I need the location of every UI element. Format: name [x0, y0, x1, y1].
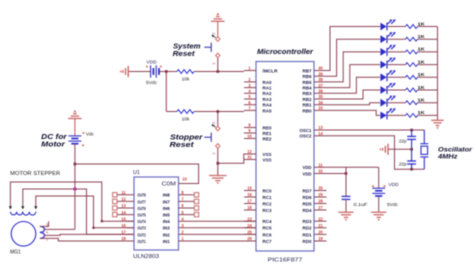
arrowhead winding terminal 1: [9, 206, 12, 209]
wire winding row 2 net: [23, 189, 134, 234]
svg-text:RA2: RA2: [263, 91, 272, 96]
plus mark V3 right: [383, 185, 385, 187]
wire IN2 to PIC: [179, 233, 257, 235]
wire LED D7 cathode to resistor: [388, 102, 406, 104]
svg-text:RE0: RE0: [263, 125, 272, 130]
junction node VDD rail / pull-up column: [165, 70, 168, 73]
resistor R7 1K: [406, 75, 418, 79]
svg-text:5Vdc: 5Vdc: [387, 202, 399, 208]
wire LED D2 cathode to resistor: [388, 38, 406, 40]
svg-text:38: 38: [318, 77, 323, 82]
svg-text:39: 39: [318, 71, 323, 76]
inductor L2 stepper winding B (2 bumps): [23, 212, 36, 215]
svg-text:RC6: RC6: [263, 232, 272, 237]
svg-text:0.1uF: 0.1uF: [354, 202, 368, 208]
svg-text:IN5: IN5: [163, 213, 170, 219]
power symbol P2 above motor supply battery: [68, 110, 82, 119]
battery V2 Vdc (DC for motor): [69, 136, 82, 144]
svg-text:1K: 1K: [418, 110, 426, 115]
wire LED D8 cathode to resistor: [388, 114, 406, 116]
wire LED common cathode bus: [437, 27, 439, 121]
battery V1 VDD 5Vdc (system): [151, 65, 159, 77]
svg-text:PIC16F877: PIC16F877: [268, 257, 303, 263]
wire LED D6 cathode to resistor: [388, 89, 406, 91]
svg-text:Reset: Reset: [170, 140, 195, 149]
resistor R1 10k (system reset pull-up): [177, 70, 194, 74]
svg-text:36: 36: [318, 89, 323, 94]
wire OSC2 net: [327, 136, 425, 169]
resistor R2 10k (stopper reset pull-up): [177, 110, 194, 114]
wire LED D3 cathode to resistor: [388, 51, 406, 53]
svg-text:MG1: MG1: [10, 250, 21, 256]
svg-text:OUT5: OUT5: [137, 213, 146, 219]
svg-text:15: 15: [247, 186, 252, 191]
svg-text:Oscillator: Oscillator: [438, 146, 472, 153]
unconnected square terminal IN5: [194, 212, 198, 216]
svg-text:OUT2: OUT2: [137, 232, 146, 238]
svg-text:ULN2803: ULN2803: [133, 254, 159, 260]
svg-text:RD5: RD5: [303, 201, 312, 206]
crystal Y1 4MHz: [420, 130, 428, 169]
svg-text:11: 11: [121, 190, 126, 195]
svg-text:17: 17: [121, 230, 126, 235]
LED D8: [380, 108, 395, 119]
svg-text:OUT7: OUT7: [137, 199, 146, 205]
arrowhead winding terminal 2: [21, 206, 24, 209]
svg-text:26: 26: [247, 236, 252, 241]
svg-text:34: 34: [318, 100, 323, 105]
svg-text:14: 14: [121, 210, 126, 215]
svg-text:23: 23: [247, 216, 252, 221]
svg-text:VSS: VSS: [263, 157, 272, 162]
wire winding row 3 net: [36, 196, 134, 228]
junction node OUT3 row: [92, 227, 94, 229]
svg-text:RB7: RB7: [303, 68, 312, 73]
wire IN1 to PIC: [179, 240, 257, 242]
resistor R6 1K: [406, 63, 418, 67]
svg-text:IN2: IN2: [163, 232, 170, 238]
resistor R10 1K: [406, 114, 418, 118]
svg-text:RA0: RA0: [263, 80, 272, 85]
svg-text:1K: 1K: [418, 72, 426, 77]
wire RB2 to LED row 6: [327, 90, 381, 99]
svg-text:19: 19: [318, 236, 323, 241]
svg-text:RC7: RC7: [263, 239, 272, 244]
svg-text:RD6: RD6: [303, 195, 312, 200]
svg-text:15: 15: [121, 216, 126, 221]
unconnected square terminal OUT7: [113, 199, 117, 203]
svg-text:RD0: RD0: [303, 239, 312, 244]
svg-text:RE2: RE2: [263, 136, 272, 141]
svg-text:RD4: RD4: [303, 208, 312, 213]
svg-text:17: 17: [247, 199, 252, 204]
svg-text:OUT3: OUT3: [137, 226, 146, 232]
svg-text:5Vdc: 5Vdc: [146, 80, 158, 86]
inductor L1 stepper winding A (2 bumps): [10, 212, 22, 215]
svg-text:VDD: VDD: [146, 60, 157, 66]
svg-text:U1: U1: [133, 170, 140, 176]
svg-text:Microcontroller: Microcontroller: [257, 47, 314, 56]
svg-text:Motor: Motor: [41, 142, 66, 149]
ground G5 below C3: [338, 212, 353, 221]
wire resistor R10 to LED bus: [418, 114, 438, 116]
svg-text:MOTOR STEPPER: MOTOR STEPPER: [10, 171, 60, 177]
svg-text:RD2: RD2: [303, 226, 312, 231]
svg-text:1K: 1K: [418, 59, 426, 64]
ground G4 (oscillator midpoint, pointing left): [379, 144, 388, 155]
svg-text:RB3: RB3: [303, 91, 312, 96]
svg-text:31: 31: [247, 155, 252, 160]
IC U2 PIC16F877 body: [256, 62, 314, 252]
junction node OSC1/C1: [410, 129, 413, 132]
unconnected square terminal OUT6: [113, 206, 117, 210]
wire motor supply column down to motor common row: [74, 144, 76, 228]
resistor R4 1K: [406, 37, 418, 41]
power symbol P1 above system reset switch: [211, 13, 225, 22]
unconnected square terminal OUT8: [113, 193, 117, 197]
wire resistor R4 to LED bus: [418, 38, 438, 40]
svg-text:1K: 1K: [418, 47, 426, 52]
resistor R8 1K: [406, 88, 418, 92]
LED D5: [380, 70, 395, 81]
svg-text:RC4: RC4: [263, 219, 272, 224]
svg-text:RB6: RB6: [303, 74, 312, 79]
wire VDD rail to /MCLR (system reset net): [128, 71, 150, 73]
wire resistor R9 to LED bus: [418, 102, 438, 104]
svg-text:18: 18: [121, 236, 126, 241]
svg-text:VDD: VDD: [303, 171, 313, 176]
svg-text:40: 40: [318, 66, 323, 71]
unconnected square terminal OUT5: [113, 212, 117, 216]
wire from SW2 down to ground junction: [217, 149, 219, 176]
svg-text:OUT4: OUT4: [137, 219, 146, 225]
svg-text:RC1: RC1: [263, 195, 272, 200]
svg-text:12: 12: [247, 149, 252, 154]
unconnected square terminal IN7: [194, 199, 198, 203]
wire RB1 to LED row 7: [327, 103, 381, 105]
unconnected square terminal IN8: [194, 193, 198, 197]
svg-text:IN6: IN6: [163, 206, 170, 212]
svg-text:RA1: RA1: [263, 86, 272, 91]
svg-text:11: 11: [318, 163, 323, 168]
svg-text:RB0: RB0: [303, 108, 312, 113]
wire OSC1 net: [327, 129, 425, 131]
LED D2: [380, 32, 395, 43]
svg-text:22p: 22p: [399, 161, 407, 166]
ground G3 LED bus: [431, 120, 443, 129]
ground G1 (left of VDD battery): [119, 66, 128, 77]
svg-text:RB4: RB4: [303, 86, 312, 91]
wire IN3 to PIC: [179, 227, 257, 229]
svg-text:35: 35: [318, 94, 323, 99]
svg-text:C0M: C0M: [162, 181, 177, 187]
wire LED D1 cathode to resistor: [388, 26, 406, 28]
wire RB7 to LED row 1: [327, 27, 381, 71]
svg-text:37: 37: [318, 83, 323, 88]
svg-text:RC0: RC0: [263, 188, 272, 193]
wire RB6 to LED row 2: [327, 39, 381, 76]
wire resistor R3 to LED bus: [418, 26, 438, 28]
arrowhead winding terminal 3: [34, 206, 37, 209]
svg-text:RB5: RB5: [303, 80, 312, 85]
wire RB0 to LED row 8: [327, 110, 381, 115]
svg-text:22p: 22p: [399, 138, 407, 143]
svg-text:28: 28: [318, 199, 323, 204]
plus mark V3 left: [372, 185, 374, 187]
svg-text:OUT6: OUT6: [137, 206, 146, 212]
svg-text:24: 24: [247, 223, 252, 228]
svg-text:4MHz: 4MHz: [437, 154, 458, 161]
capacitor C2 22p: [411, 149, 413, 161]
svg-text:16: 16: [121, 223, 126, 228]
svg-text:DC for: DC for: [41, 134, 68, 141]
svg-text:1K: 1K: [418, 34, 426, 39]
wire resistor R7 to LED bus: [418, 76, 438, 78]
svg-text:30: 30: [318, 186, 323, 191]
svg-text:13: 13: [121, 203, 126, 208]
wire VDD pin11 rail: [327, 166, 379, 168]
svg-text:1K: 1K: [418, 98, 426, 103]
plus mark V1 right: [160, 65, 162, 67]
svg-text:RD7: RD7: [303, 188, 312, 193]
IC U1 ULN2803 body: [134, 177, 179, 250]
svg-text:RA3: RA3: [263, 97, 272, 102]
svg-text:20: 20: [318, 230, 323, 235]
svg-text:IN3: IN3: [163, 226, 170, 232]
svg-text:RA4: RA4: [263, 103, 272, 108]
wire stub to VSS pin 31: [244, 159, 256, 161]
junction node coil center tap / supply column: [73, 188, 76, 191]
junction node OSC2/C2: [410, 168, 413, 171]
motor MG1 body circle: [11, 222, 36, 247]
LED D1: [380, 19, 395, 30]
svg-text:VDD: VDD: [389, 182, 400, 188]
wire RB4 to LED row 4: [327, 65, 381, 88]
LED D6: [380, 83, 395, 94]
svg-text:RB2: RB2: [303, 97, 312, 102]
svg-text:29: 29: [318, 192, 323, 197]
capacitor C1 22p: [411, 130, 413, 136]
capacitor C3 0.1uF: [345, 174, 347, 197]
wire RB3 to LED row 5: [327, 77, 381, 93]
junction node VDD rail / C3: [345, 172, 348, 175]
wire RB5 to LED row 3: [327, 52, 381, 82]
wire VDD pins link: [345, 167, 347, 173]
svg-text:VSS: VSS: [263, 152, 272, 157]
svg-text:10: 10: [182, 177, 187, 182]
svg-text:RD3: RD3: [303, 219, 312, 224]
wire from SW1 to /MCLR rail: [217, 58, 219, 72]
wire winding row 1 net: [10, 182, 134, 221]
junction node at stopper reset switch: [217, 110, 220, 113]
svg-text:OUT1: OUT1: [137, 239, 146, 245]
motor connector bump pins 3/4: [40, 226, 45, 232]
plus mark V1 left: [146, 65, 148, 67]
svg-text:RD1: RD1: [303, 232, 312, 237]
svg-text:RC3: RC3: [263, 208, 272, 213]
svg-text:OUT8: OUT8: [137, 193, 146, 199]
wire motor pin3 to OUT4 row: [40, 221, 49, 226]
wire motor mid pin to OUT2 row: [44, 234, 134, 235]
svg-text:RE1: RE1: [263, 131, 272, 136]
wire from rail down to switch SW2: [217, 112, 219, 126]
svg-text:Reset: Reset: [173, 49, 196, 58]
wire from junction to PIC VSS pins: [218, 154, 256, 163]
svg-text:IN8: IN8: [163, 193, 170, 199]
ground G6 below V3: [371, 212, 386, 221]
svg-text:12: 12: [121, 197, 126, 202]
svg-text:IN7: IN7: [163, 199, 170, 205]
svg-text:RB1: RB1: [303, 103, 312, 108]
resistor R3 1K: [406, 25, 418, 29]
svg-text:RA5: RA5: [263, 108, 272, 113]
svg-text:32: 32: [318, 169, 323, 174]
junction node at system reset switch: [217, 70, 220, 73]
switch SW2 Stopper Reset (push button): [204, 124, 220, 148]
junction node OUT4 row: [101, 220, 103, 222]
wire IN4 to PIC: [179, 220, 257, 222]
resistor R5 1K: [406, 50, 418, 54]
wire resistor R6 to LED bus: [418, 64, 438, 66]
LED D3: [380, 45, 395, 56]
svg-text:/MCLR: /MCLR: [263, 68, 279, 73]
battery V3 VDD 5Vdc: [378, 167, 380, 188]
svg-text:14: 14: [318, 131, 323, 136]
svg-text:RC5: RC5: [263, 226, 272, 231]
wire COM to motor supply column: [75, 164, 199, 184]
wire from P1 down to switch SW1: [217, 21, 219, 36]
svg-text:Vdc: Vdc: [86, 132, 95, 138]
svg-text:27: 27: [318, 205, 323, 210]
svg-text:IN1: IN1: [163, 239, 170, 245]
svg-text:21: 21: [318, 223, 323, 228]
svg-text:10k: 10k: [182, 77, 190, 83]
svg-text:1K: 1K: [418, 21, 426, 26]
wire LED D4 cathode to resistor: [388, 64, 406, 66]
svg-text:13: 13: [318, 125, 323, 130]
wire vertical from VDD junction down to stopper rail: [165, 72, 167, 112]
plus mark V2 bottom: [82, 144, 84, 146]
wire resistor R8 to LED bus: [418, 89, 438, 91]
LED D4: [380, 58, 395, 69]
plus mark V2 top: [82, 132, 84, 134]
unconnected square terminal IN6: [194, 206, 198, 210]
wire motor pin4 to OUT3 row (common): [44, 228, 75, 230]
svg-text:22: 22: [318, 216, 323, 221]
svg-text:IN4: IN4: [163, 219, 170, 225]
svg-text:VDD: VDD: [303, 165, 313, 170]
switch SW1 System Reset (push button): [204, 35, 220, 58]
svg-text:25: 25: [247, 230, 252, 235]
svg-text:OSC2: OSC2: [300, 134, 312, 139]
svg-text:1K: 1K: [418, 85, 426, 90]
LED D7: [380, 96, 395, 107]
wire VDD pin32 stub: [327, 173, 347, 175]
junction node COM wire / supply column: [74, 163, 77, 166]
svg-text:10: 10: [247, 134, 252, 139]
wire LED D5 cathode to resistor: [388, 76, 406, 78]
motor connector bump pins 1/2: [40, 232, 45, 238]
wire resistor R5 to LED bus: [418, 51, 438, 53]
svg-text:33: 33: [318, 106, 323, 111]
junction node C1/C2 midpoint: [410, 148, 413, 151]
svg-text:10k: 10k: [182, 117, 190, 123]
junction node switch/VSS/ground: [217, 162, 220, 165]
wire mid node to ground: [388, 148, 412, 150]
ground G2 below stopper reset switch: [209, 176, 227, 185]
wire from P2 to battery V2: [74, 119, 76, 136]
svg-text:RC2: RC2: [263, 201, 272, 206]
resistor R9 1K: [406, 101, 418, 105]
wire stopper reset rail (RA5 net): [166, 111, 177, 113]
wire motor bottom pin to OUT1 row: [40, 238, 134, 241]
svg-text:18: 18: [247, 205, 252, 210]
svg-text:16: 16: [247, 192, 252, 197]
svg-text:OSC1: OSC1: [300, 128, 312, 133]
